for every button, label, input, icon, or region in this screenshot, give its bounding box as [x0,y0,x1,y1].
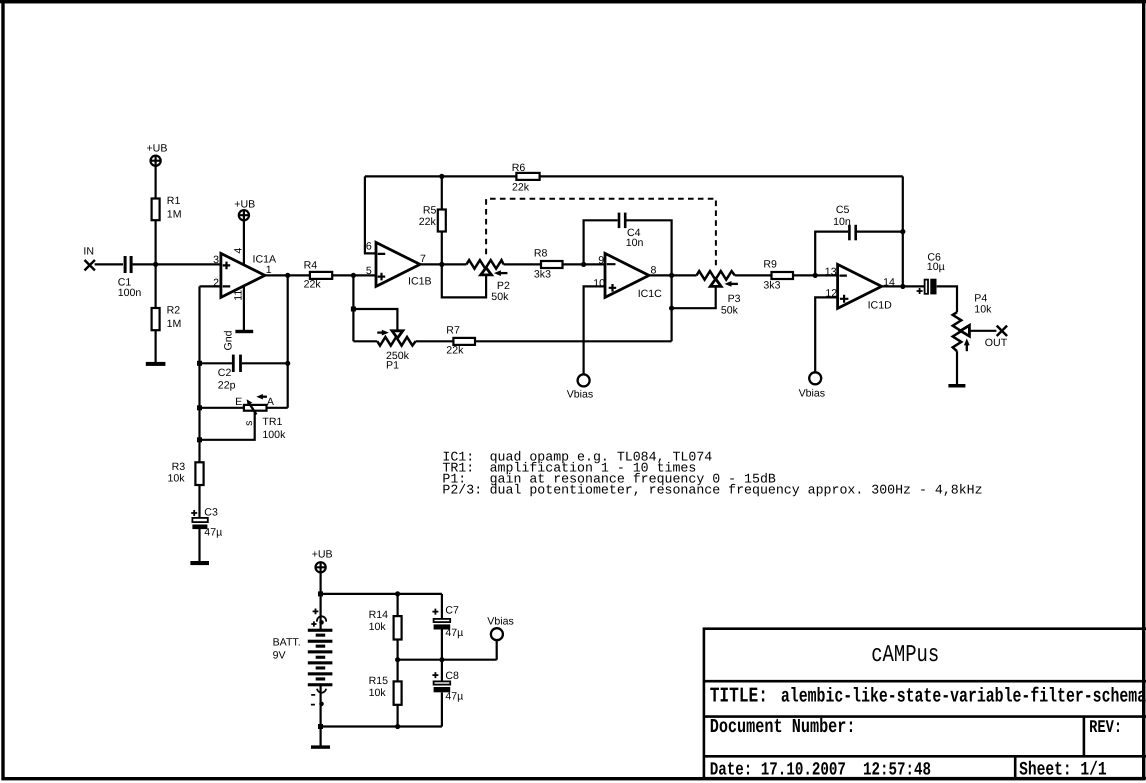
svg-text:+UB: +UB [312,549,333,561]
svg-text:R2: R2 [167,305,181,317]
svg-text:IC1C: IC1C [638,288,662,300]
svg-text:22k: 22k [419,216,437,228]
svg-text:12: 12 [825,288,837,300]
svg-text:10k: 10k [168,472,186,484]
svg-text:cAMPus: cAMPus [871,640,939,668]
svg-text:+UB: +UB [147,143,168,155]
svg-text:10µ: 10µ [927,261,945,273]
svg-text:10k: 10k [369,687,387,699]
svg-text:22k: 22k [304,279,322,291]
svg-text:s: s [243,421,255,426]
svg-text:5: 5 [366,265,372,277]
svg-text:Vbias: Vbias [487,615,514,627]
svg-text:22k: 22k [512,181,530,193]
svg-text:3k3: 3k3 [534,268,551,280]
svg-text:Vbias: Vbias [799,387,826,399]
svg-text:10n: 10n [833,216,851,228]
svg-text:C5: C5 [836,204,850,216]
svg-text:9V: 9V [273,649,287,661]
svg-text:Gnd: Gnd [223,330,235,350]
svg-text:R15: R15 [369,675,389,687]
svg-text:IN: IN [83,246,94,258]
svg-text:P1: P1 [386,360,399,372]
svg-text:R5: R5 [423,204,437,216]
svg-text:1: 1 [266,264,272,276]
svg-text:alembic-like-state-variable-fi: alembic-like-state-variable-filter-schem… [781,687,1146,709]
svg-text:10n: 10n [626,237,644,249]
svg-text:3k3: 3k3 [763,279,780,291]
svg-text:dual potentiometer, resonance: dual potentiometer, resonance frequency … [490,483,983,498]
svg-text:47µ: 47µ [204,526,222,538]
svg-text:R8: R8 [534,247,548,259]
svg-text:TR1: TR1 [262,416,282,428]
svg-text:Date: 17.10.2007 12:57:48: Date: 17.10.2007 12:57:48 [710,760,931,781]
svg-text:+UB: +UB [234,199,255,211]
svg-text:Vbias: Vbias [567,388,594,400]
svg-text:R3: R3 [172,461,186,473]
svg-text:Document Number:: Document Number: [710,715,856,738]
svg-text:C3: C3 [204,507,218,519]
svg-text:2: 2 [213,277,219,289]
svg-text:10k: 10k [974,303,992,315]
svg-text:C8: C8 [445,670,459,682]
svg-text:1M: 1M [167,209,182,221]
svg-text:13: 13 [825,266,837,278]
svg-text:IC1D: IC1D [868,299,892,311]
svg-text:22p: 22p [218,380,236,392]
svg-text:50k: 50k [491,291,509,303]
svg-text:8: 8 [651,265,657,277]
svg-text:4: 4 [233,248,245,254]
svg-text:OUT: OUT [985,337,1008,349]
svg-text:11: 11 [233,290,245,301]
svg-text:100n: 100n [118,287,142,299]
svg-text:A: A [267,396,275,408]
svg-text:P3: P3 [728,293,741,305]
svg-text:7: 7 [420,253,426,265]
svg-text:10: 10 [593,277,605,289]
svg-text:E: E [235,396,242,408]
svg-text:IC1B: IC1B [408,276,432,288]
svg-text:R1: R1 [167,195,181,207]
svg-text:47µ: 47µ [445,627,463,639]
svg-text:14: 14 [883,276,895,288]
svg-text:C7: C7 [445,605,459,617]
svg-text:R6: R6 [512,162,526,174]
svg-text:100k: 100k [262,429,286,441]
svg-text:R4: R4 [304,260,318,272]
svg-text:BATT.: BATT. [273,637,301,649]
svg-text:22k: 22k [446,344,464,356]
svg-text:TITLE:: TITLE: [710,685,768,708]
svg-text:R7: R7 [446,324,460,336]
svg-text:10k: 10k [369,621,387,633]
svg-text:C2: C2 [218,367,232,379]
svg-text:3: 3 [213,254,219,266]
svg-text:6: 6 [366,241,372,253]
svg-text:47µ: 47µ [445,691,463,703]
svg-text:R9: R9 [763,258,777,270]
svg-text:1M: 1M [167,318,182,330]
svg-text:Sheet: 1/1: Sheet: 1/1 [1019,760,1107,781]
svg-text:REV:: REV: [1089,719,1122,739]
svg-text:IC1A: IC1A [253,254,277,266]
svg-text:P2/3:: P2/3: [442,483,482,498]
svg-text:9: 9 [598,255,604,267]
svg-text:50k: 50k [721,305,739,317]
svg-text:R14: R14 [369,609,389,621]
